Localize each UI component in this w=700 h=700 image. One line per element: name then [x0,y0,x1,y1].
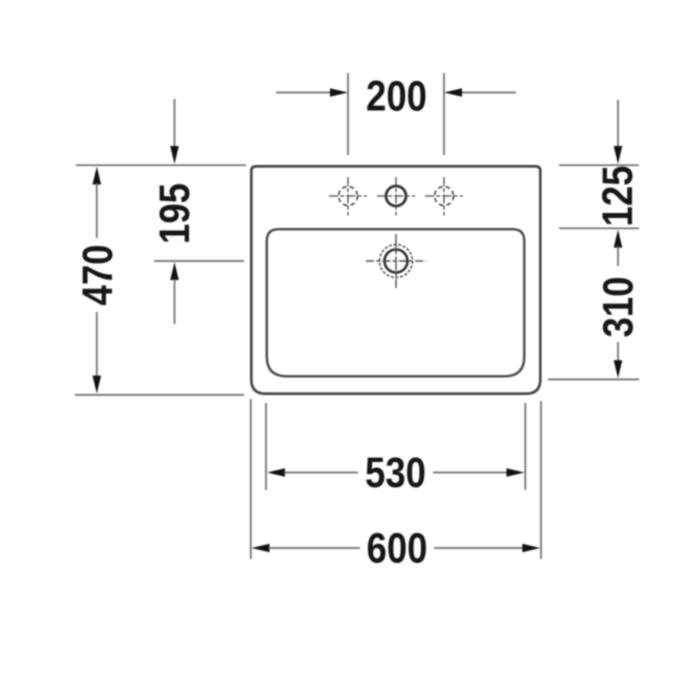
dim 310 arrow down [614,360,623,378]
dim 530 arrow right [507,468,525,477]
svg-text:470: 470 [74,245,121,306]
faucet hole right crosshair vertical [443,177,445,216]
basin outer outline [251,166,540,393]
faucet hole right (dashed circle) [435,187,454,206]
drain crosshair horizontal [366,260,426,262]
svg-text:125: 125 [594,166,641,227]
dim 600 arrow right [522,544,540,553]
drain hole outer dashed circle [380,245,413,278]
dim 195 extension line bottom [154,260,244,262]
dim 200 arrow left [330,88,348,97]
dim 530 line right segment [433,472,508,474]
dim 600 line right segment [434,547,524,549]
dim 530 line left segment [284,472,358,474]
faucet hole left crosshair vertical [347,177,349,216]
dim 125 extension line top [559,164,639,166]
dim 600 line left segment [269,547,361,549]
faucet hole left (dashed circle) [339,187,358,206]
faucet hole center crosshair horizontal [377,195,415,197]
drain crosshair vertical [395,234,397,288]
dim 195 lower tail line [174,279,176,324]
dim 470 arrow up [93,167,102,185]
faucet hole center crosshair vertical [395,177,397,216]
basin inner bowl [267,229,525,376]
dim 195 arrow up [170,262,179,280]
dim 470 extension line top [76,164,246,166]
dim 600 arrow left [252,544,270,553]
dim 125 upper tail line [617,100,619,148]
drain hole inner circle [385,250,408,273]
dim 530 extension line right [524,403,526,490]
dim 195 arrow down [170,146,179,164]
svg-text:310: 310 [595,277,642,338]
dim 600 extension line left [250,399,252,559]
dim 125 arrow down [614,146,623,164]
dim 200 extension line right [443,73,445,155]
dim 125 extension line bottom [559,227,639,229]
svg-text:530: 530 [365,449,426,496]
dim 600 extension line right [540,401,542,559]
dim 310 arrow up [614,230,623,248]
svg-text:200: 200 [366,73,427,120]
dim 310 upper tail line [617,246,619,266]
dim 200 extension line left [347,73,349,155]
dim 310 lower tail line [617,342,619,362]
svg-text:600: 600 [367,525,428,572]
dim 200 line right segment [460,92,516,94]
dim 470 line upper segment [96,183,98,238]
faucet hole center (solid circle) [386,186,406,206]
faucet hole left crosshair horizontal [329,195,367,197]
dim 200 line left segment [276,92,332,94]
dim 530 arrow left [267,468,285,477]
dim 470 extension line bottom [75,394,244,396]
dim 530 extension line left [265,403,267,490]
svg-text:195: 195 [151,183,198,244]
dim 200 arrow right [444,88,462,97]
faucet hole right crosshair horizontal [425,195,463,197]
dim 470 line lower segment [96,312,98,377]
dim 470 arrow down [93,376,102,394]
dim 310 extension line bottom [548,378,639,380]
dim 195 upper tail line [174,99,176,148]
